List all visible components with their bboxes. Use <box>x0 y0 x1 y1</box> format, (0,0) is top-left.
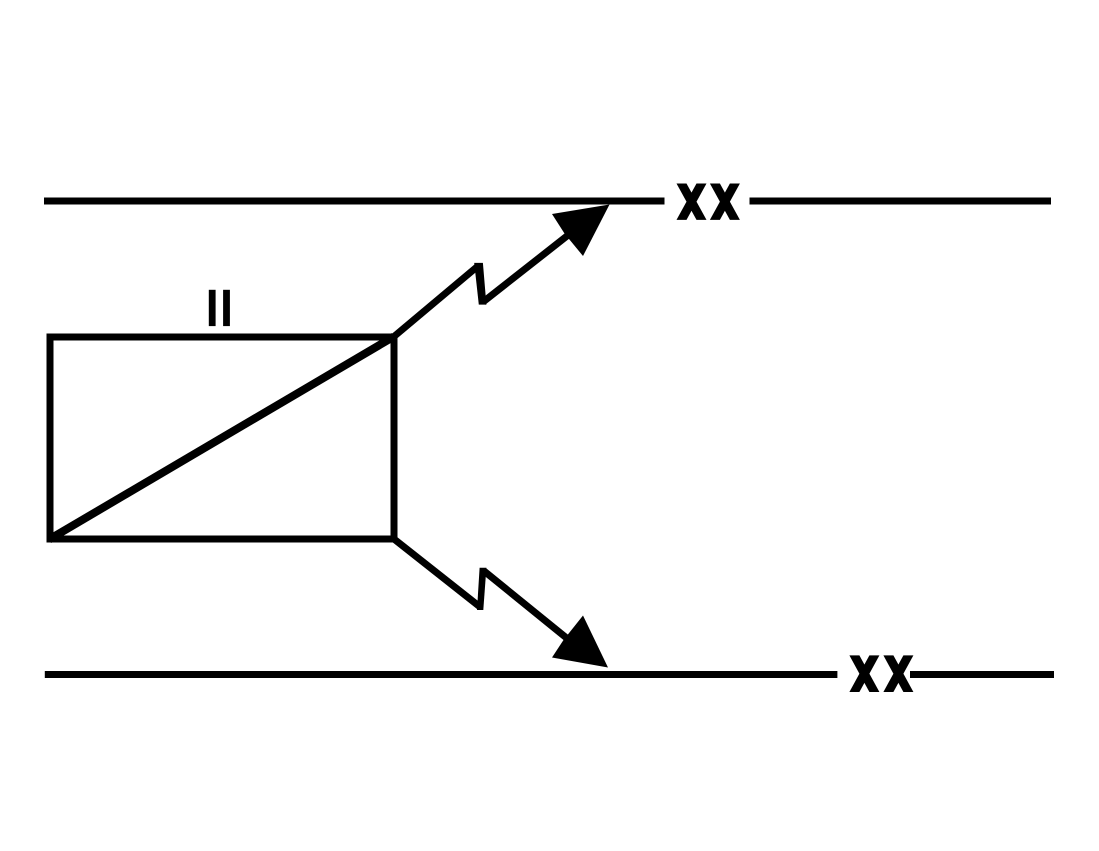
upper zigzag arrow shaft segment 2 <box>483 231 573 302</box>
wire: top rail left segment <box>44 198 665 205</box>
lower arrowhead <box>552 616 608 668</box>
label II of component box <box>209 290 230 326</box>
node XX (bottom rail break label), drawn as two X polygons <box>849 655 913 692</box>
wire: bottom rail left segment <box>45 671 838 678</box>
diagonal of component box <box>49 337 394 540</box>
upper zigzag arrow shaft segment 1 <box>394 266 478 337</box>
wire: top rail right segment <box>750 198 1052 205</box>
upper zigzag jog bar <box>474 263 486 305</box>
node XX (top rail break label), drawn as two X polygons <box>677 184 740 220</box>
upper arrowhead <box>552 205 610 257</box>
lower zigzag arrow shaft segment 2 <box>484 571 572 642</box>
wire: bottom rail right segment <box>910 671 1054 678</box>
lower zigzag jog bar <box>477 568 486 610</box>
component box U1 (rectangle with diagonal) <box>50 337 394 539</box>
lower zigzag arrow shaft segment 1 <box>394 539 480 607</box>
